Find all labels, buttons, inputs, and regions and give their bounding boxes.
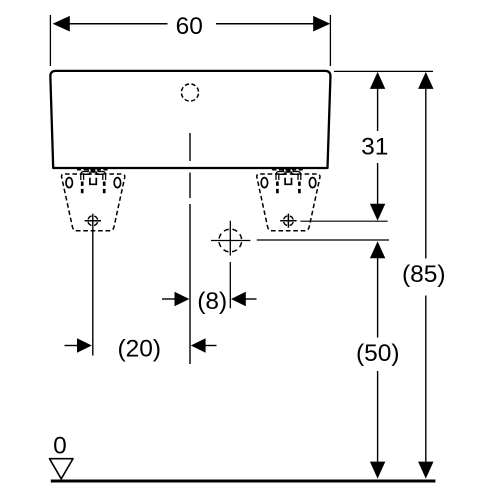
label (8) <box>197 288 227 315</box>
right screw extension line to 31 dim <box>300 220 387 222</box>
drain hole (dashed circle) <box>219 229 242 252</box>
arrowhead left of dim 60 <box>53 16 70 32</box>
dim 50 bottom arrowhead <box>370 462 385 479</box>
left bracket hole right <box>114 178 120 188</box>
left screw symbol <box>85 216 101 226</box>
dim 8 right arrowhead <box>231 292 246 306</box>
left hanger dashed legs <box>82 182 104 194</box>
left bracket (dashed trapezoid) <box>62 174 125 231</box>
svg-text:(50): (50) <box>356 340 400 367</box>
dim 20 left stub <box>65 345 79 347</box>
extension line right of dim 60 <box>329 15 331 66</box>
right bracket (dashed trapezoid) <box>257 174 320 231</box>
dim 50 top arrowhead <box>370 241 385 258</box>
extension line left of dim 60 <box>49 15 51 66</box>
svg-text:60: 60 <box>176 13 203 40</box>
right bracket hole left <box>261 178 267 188</box>
label (85) <box>402 261 446 288</box>
dim 8 left arrowhead <box>175 292 190 306</box>
dim 31 top arrowhead <box>370 72 385 89</box>
floor line <box>51 480 436 483</box>
label 0 (datum) <box>53 433 67 460</box>
dim 85 line <box>425 87 427 463</box>
dim 20 left arrowhead <box>77 338 92 352</box>
svg-text:(85): (85) <box>402 261 446 288</box>
top extension line for 31 and 85 <box>334 70 433 72</box>
dim 31 bottom arrowhead <box>370 204 385 221</box>
dim 8 left stub <box>162 298 176 300</box>
dim 85 top arrowhead <box>418 72 433 89</box>
label 31 <box>361 133 388 160</box>
left hanger bracket <box>81 169 106 185</box>
arrowhead right of dim 60 <box>313 16 330 32</box>
dim 20 right arrowhead <box>191 338 206 352</box>
right clamp dashes <box>272 168 305 171</box>
tap hole (dashed circle) <box>181 84 198 101</box>
svg-text:(8): (8) <box>197 288 227 315</box>
drain vertical center line <box>229 221 231 308</box>
dim 31 line <box>377 87 379 206</box>
left screw vertical extension (20 dim) <box>92 214 94 356</box>
right screw symbol <box>280 214 296 228</box>
left clamp dashes <box>77 168 110 171</box>
label (20) <box>118 335 162 362</box>
svg-text:(20): (20) <box>118 335 162 362</box>
drain horizontal center line <box>211 239 389 242</box>
right hanger dashed legs <box>277 182 299 194</box>
dim 8 right stub <box>244 298 256 300</box>
right bracket hole right <box>309 178 315 188</box>
svg-text:0: 0 <box>53 433 67 460</box>
right hanger bracket <box>276 169 301 185</box>
left bracket hole left <box>66 178 72 188</box>
label 60 <box>176 13 203 40</box>
dimension line 60 <box>70 23 314 25</box>
dim 20 right stub <box>204 345 217 347</box>
dim 85 bottom arrowhead <box>418 462 433 479</box>
dim 50 line <box>377 257 379 464</box>
basin outline <box>50 71 330 168</box>
label (50) <box>356 340 400 367</box>
svg-text:31: 31 <box>361 133 388 160</box>
basin center line <box>189 133 191 364</box>
datum triangle <box>50 459 74 479</box>
